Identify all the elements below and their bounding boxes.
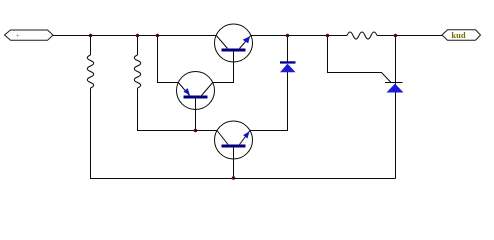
svg-text:kud: kud (451, 30, 465, 40)
svg-text:+: + (16, 31, 21, 40)
